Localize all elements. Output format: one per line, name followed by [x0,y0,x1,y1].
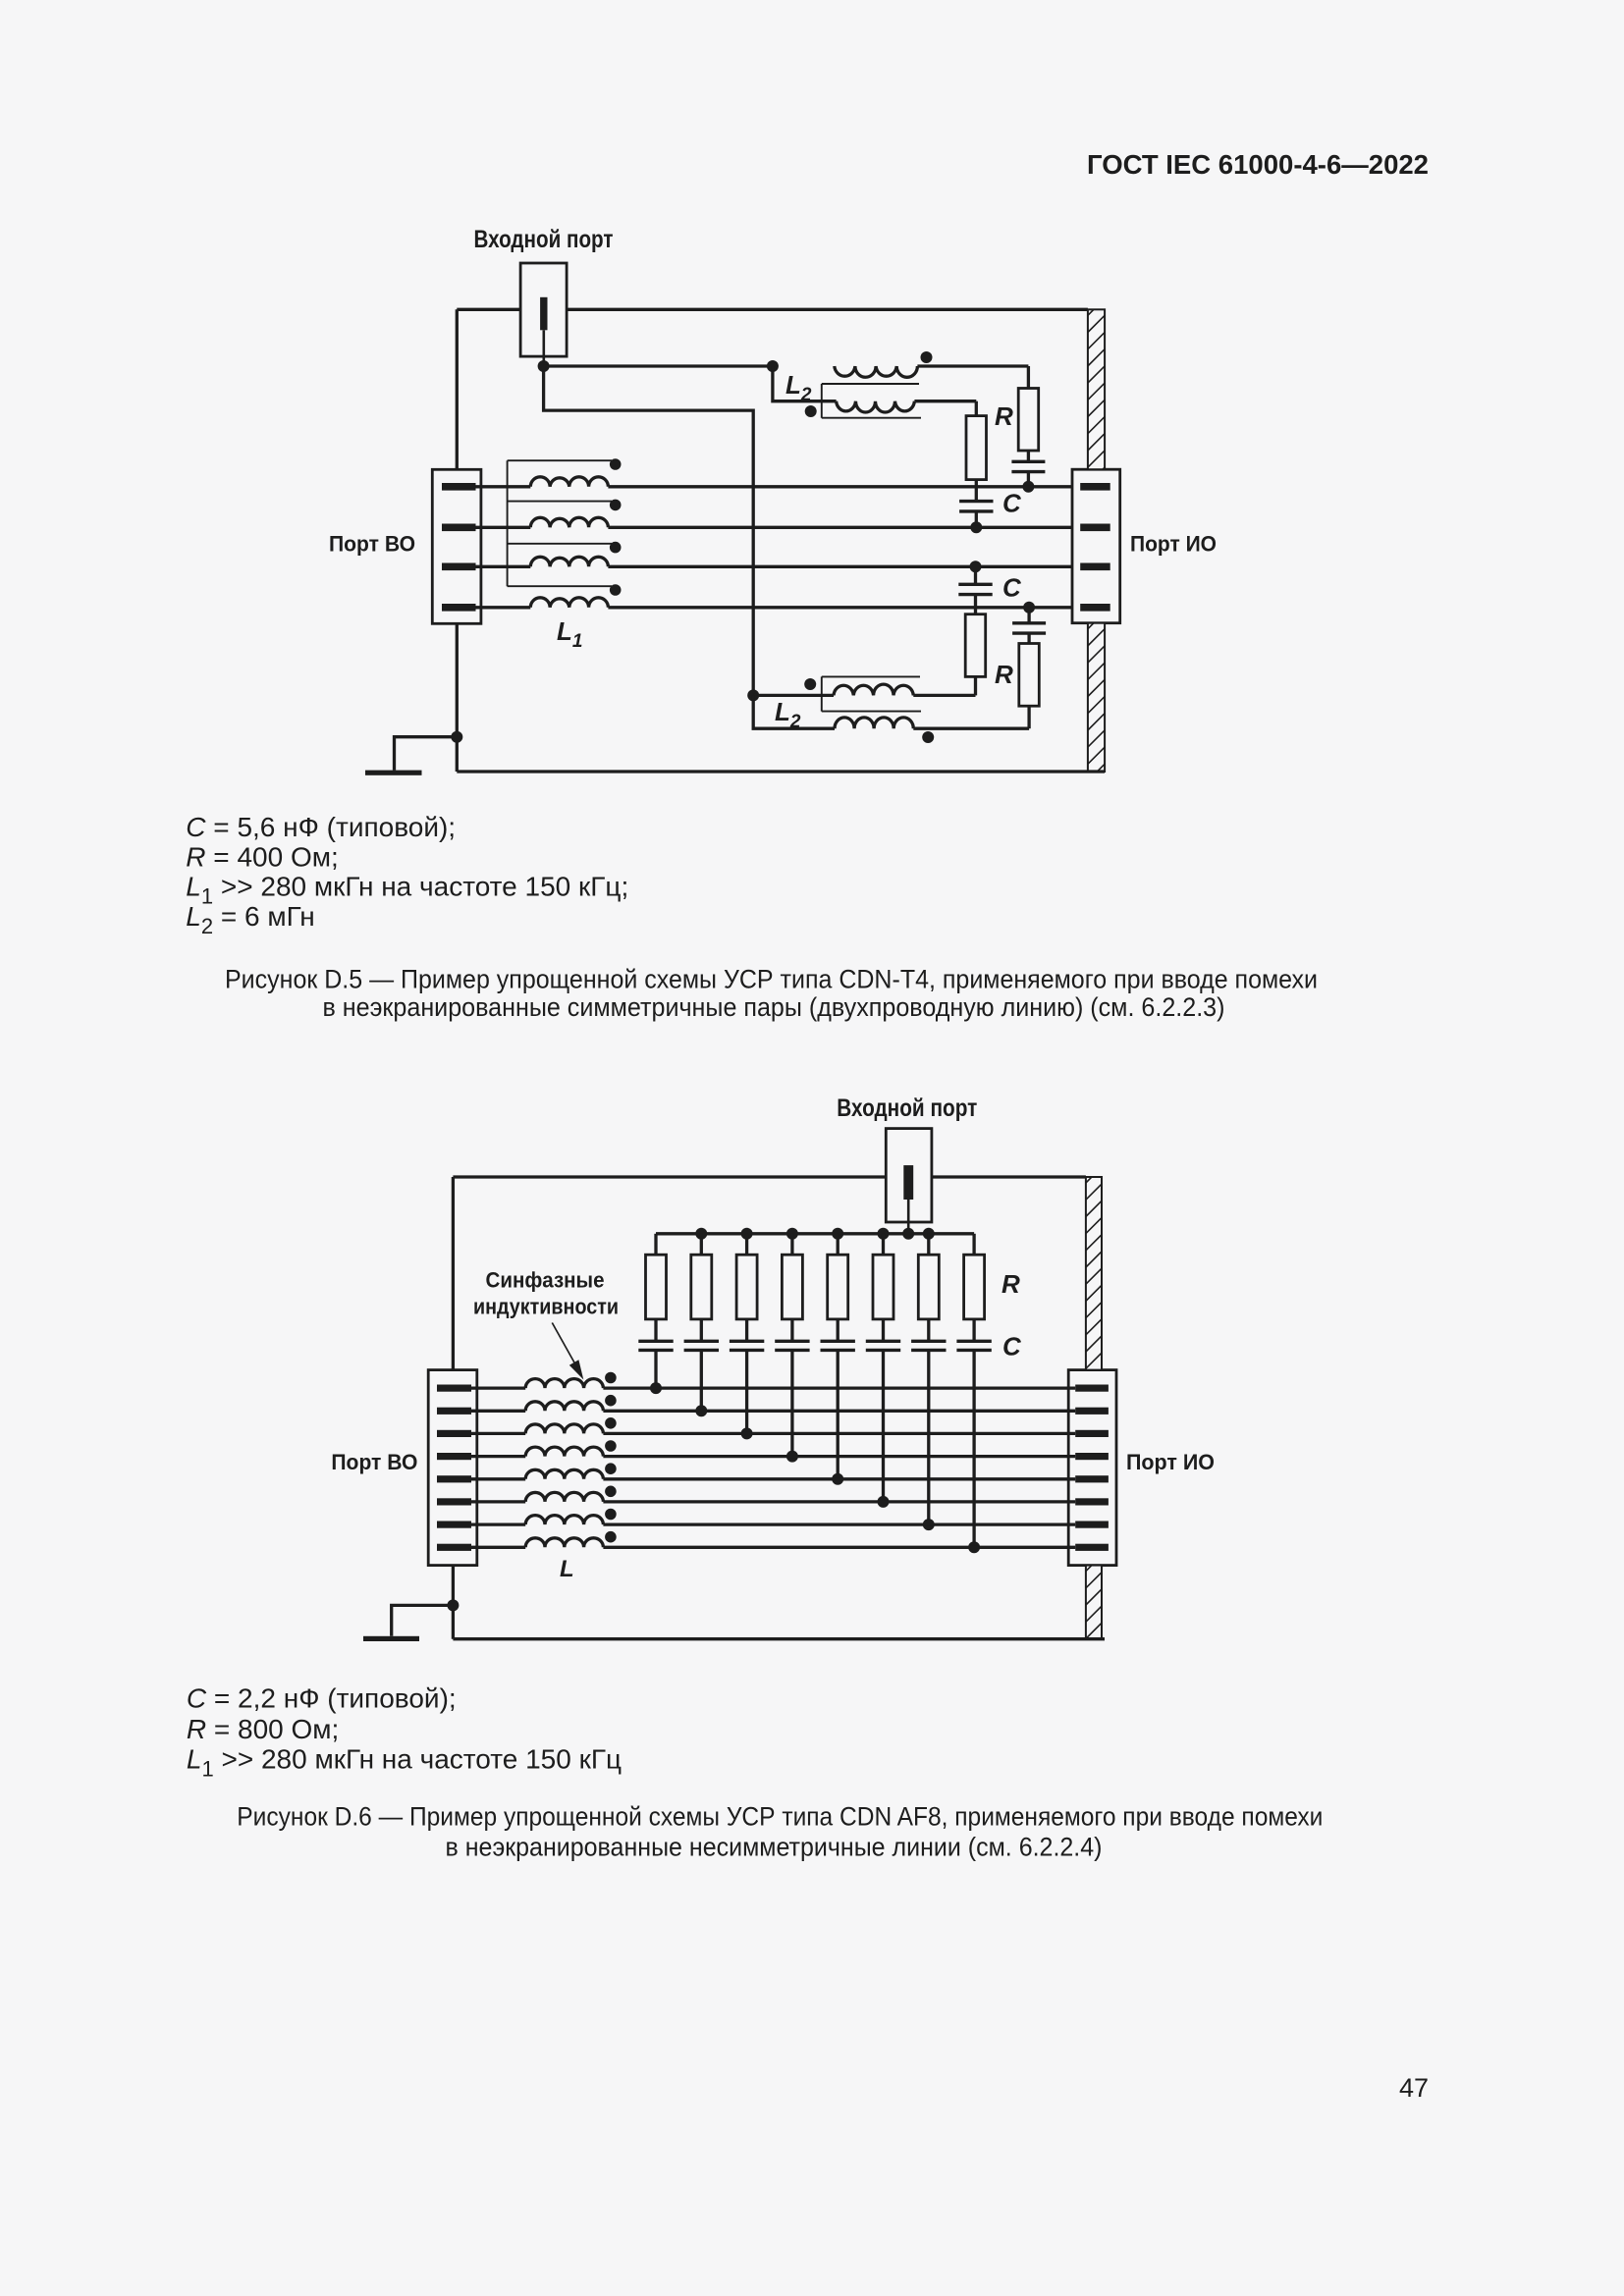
wire: conductor 6, fig D.6 [603,1500,1075,1503]
inductor L2 upper transformer, winding 2, fig D.5 [822,401,977,412]
svg-text:Входной порт: Входной порт [474,226,614,253]
polarity dot: choke 4, fig D.6 [605,1440,617,1452]
wire: to earth symbol, fig D.5 [395,737,458,771]
capacitor C7, fig D.6 [911,1341,946,1350]
wire: capacitor 3 down to conductor 3, fig D.6 [745,1350,748,1433]
wire: conductor 4, fig D.6 [603,1455,1075,1458]
pin bar 2 of Порт ИО, fig D.5 [1080,524,1110,532]
pin bar 1 of Порт ИО, fig D.6 [1075,1385,1109,1392]
svg-text:R: R [995,401,1013,431]
capacitor C2, fig D.6 [684,1341,719,1350]
wire: resistor 5 to capacitor, fig D.6 [837,1319,839,1340]
resistor R8, fig D.6 [964,1255,985,1319]
polarity dot: choke 6, fig D.6 [605,1486,617,1498]
inductor L winding 2, fig D.6 [471,1402,603,1412]
earth ground symbol, fig D.6 [363,1636,419,1641]
resistor R1, fig D.6 [646,1255,667,1319]
svg-text:R: R [995,660,1013,689]
junction: bus node 3, fig D.6 [741,1228,753,1240]
wire: conductor 1, fig D.6 [603,1386,1075,1389]
wire: to earth symbol, fig D.6 [392,1605,454,1635]
wire: resistor 8 to capacitor, fig D.6 [972,1319,975,1340]
capacitor C4, fig D.6 [775,1341,809,1350]
wire: left rail lower, fig D.5 [456,623,459,772]
junction: bus node 7, fig D.6 [923,1228,935,1240]
svg-text:C = 2,2 нФ (типовой);: C = 2,2 нФ (типовой); [187,1682,457,1713]
resistor R4, fig D.6 [782,1255,802,1319]
wire: bus to resistor 1, fig D.6 [654,1234,657,1255]
wire: conductor 3, fig D.6 [603,1432,1075,1435]
junction: branch 8 on conductor 8, fig D.6 [968,1541,980,1553]
junction: ground tap, fig D.5 [451,731,462,743]
core lines: L2 lower transformer, fig D.5 [822,676,921,711]
svg-text:L: L [560,1556,574,1582]
capacitor (upper right branch), fig D.5 [1011,461,1045,471]
wire: resistor to capacitor, fig D.5 [1027,633,1030,643]
wire: node to L2 upper lower winding, fig D.5 [773,366,822,401]
capacitor C (upper), fig D.5 [959,502,993,511]
junction: on conductor 2, fig D.5 [970,521,982,533]
polarity dot: L2 lower winding 1, fig D.5 [804,678,816,690]
resistor R (upper right), fig D.5 [1018,389,1039,452]
pin bar 3 of Порт ИО, fig D.5 [1080,563,1110,571]
junction: on conductor 1, fig D.5 [1022,481,1034,493]
wire: bus to resistor 2, fig D.6 [700,1234,703,1255]
svg-text:Порт ВО: Порт ВО [329,532,415,557]
polarity dot: choke 3, fig D.6 [605,1417,617,1429]
wire: conductor 7, fig D.6 [603,1522,1075,1525]
pin bar 6 of Порт ИО, fig D.6 [1075,1498,1109,1505]
inductor L winding 8, fig D.6 [471,1538,603,1548]
wire: left rail upper, fig D.5 [456,309,459,469]
pin bar 1 of Порт ИО, fig D.5 [1080,483,1110,491]
junction: bus node 5, fig D.6 [832,1228,843,1240]
svg-text:Рисунок D.5 — Пример упрощенно: Рисунок D.5 — Пример упрощенной схемы УС… [225,965,1318,994]
polarity dot: L1 choke 2, fig D.5 [610,500,622,511]
svg-text:ГОСТ IEC 61000-4-6—2022: ГОСТ IEC 61000-4-6—2022 [1087,149,1429,180]
wire: bus to resistor 7, fig D.6 [927,1234,930,1255]
inductor L1 winding 2, fig D.5 [476,517,609,527]
junction: L2 lower input node, fig D.5 [747,689,759,701]
core line of L1 choke 3, fig D.5 [508,543,612,545]
inductor L1 winding 1, fig D.5 [476,477,609,487]
capacitor C1, fig D.6 [638,1341,673,1350]
wire: port node to L2 upper, fig D.5 [544,364,773,367]
pin bar 3 of Порт ВО, fig D.5 [442,563,476,571]
wire: capacitor 1 down to conductor 1, fig D.6 [654,1350,657,1388]
junction: bus node 2, fig D.6 [695,1228,707,1240]
svg-text:R = 800 Ом;: R = 800 Ом; [187,1714,339,1744]
polarity dot: choke 2, fig D.6 [605,1395,617,1407]
wire: conductor 2, fig D.6 [603,1410,1075,1413]
wire: capacitor 2 down to conductor 2, fig D.6 [700,1350,703,1411]
pin bar 3 of Порт ИО, fig D.6 [1075,1430,1109,1437]
svg-text:в неэкранированные симметричны: в неэкранированные симметричные пары (дв… [323,992,1225,1022]
inductor L1 winding 4, fig D.5 [476,598,609,608]
polarity dot: choke 5, fig D.6 [605,1463,617,1474]
wire: capacitor to conductor 1, fig D.5 [1027,472,1030,487]
pin bar 4 of Порт ВО, fig D.6 [437,1453,471,1460]
resistor R5, fig D.6 [828,1255,848,1319]
wire: resistor 6 to capacitor, fig D.6 [882,1319,885,1340]
wire: L2 lower w2 to resistor R, fig D.5 [1027,706,1030,728]
capacitor C8, fig D.6 [956,1341,991,1350]
polarity dot: choke 7, fig D.6 [605,1509,617,1521]
wire: capacitor 8 down to conductor 8, fig D.6 [972,1350,975,1547]
wire: resistor bus, fig D.6 [656,1232,974,1235]
junction: bus node 4, fig D.6 [786,1228,798,1240]
junction: bus node 6, fig D.6 [878,1228,890,1240]
resistor R (upper left), fig D.5 [966,416,987,480]
inductor L winding 7, fig D.6 [471,1516,603,1525]
inductor L1 winding 3, fig D.5 [476,557,609,566]
junction: ground tap, fig D.6 [447,1599,459,1611]
wire: capacitor 6 down to conductor 6, fig D.6 [882,1350,885,1502]
wire: left rail upper, fig D.6 [452,1177,455,1370]
wire: resistor 7 to capacitor, fig D.6 [927,1319,930,1340]
junction: port feed on bus, fig D.6 [902,1228,914,1240]
wire: resistor 2 to capacitor, fig D.6 [700,1319,703,1340]
wire: bus to resistor 8, fig D.6 [972,1234,975,1255]
wire: bus to resistor 4, fig D.6 [790,1234,793,1255]
svg-text:Входной порт: Входной порт [837,1095,977,1122]
core lines: L2 upper transformer, fig D.5 [822,384,921,418]
pin bar 2 of Порт ИО, fig D.6 [1075,1408,1109,1415]
svg-text:Порт ИО: Порт ИО [1126,1450,1215,1474]
wire: resistor crossing conductor 1 to capacitor, fig D.5 [975,480,978,502]
wire: bus to resistor 6, fig D.6 [882,1234,885,1255]
svg-text:47: 47 [1399,2073,1429,2103]
wire: conductor 3, fig D.5 [608,565,1080,568]
wire: bus to resistor 5, fig D.6 [837,1234,839,1255]
wire: input port pin stem, fig D.5 [542,330,545,366]
svg-text:C: C [1002,489,1022,518]
svg-text:C = 5,6 нФ (типовой);: C = 5,6 нФ (типовой); [186,812,456,842]
wire: resistor crossing conductor 4 to capacitor, fig D.5 [974,595,977,614]
junction: branch 2 on conductor 2, fig D.6 [695,1405,707,1416]
ground reference wall (lower), fig D.6 [1086,1552,1106,1656]
polarity dot: L1 choke 4, fig D.5 [610,584,622,596]
wire: top rail right segment, fig D.6 [932,1175,1086,1178]
Порт ИО box, fig D.5 [1072,469,1120,623]
polarity dot: L2 lower winding 2, fig D.5 [922,731,934,743]
pin bar 4 of Порт ИО, fig D.6 [1075,1453,1109,1460]
polarity dot: L1 choke 3, fig D.5 [610,542,622,554]
junction: branch 6 on conductor 6, fig D.6 [878,1496,890,1508]
inductor L winding 4, fig D.6 [471,1447,603,1457]
svg-text:Рисунок D.6 — Пример упрощенно: Рисунок D.6 — Пример упрощенной схемы УС… [237,1802,1323,1832]
core line of L1 choke 4, fig D.5 [508,585,612,587]
input port box, fig D.5 [520,263,567,356]
resistor R3, fig D.6 [736,1255,757,1319]
capacitor C3, fig D.6 [730,1341,764,1350]
pin bar 4 of Порт ВО, fig D.5 [442,604,476,612]
wire: top rail right segment, fig D.5 [567,308,1088,311]
svg-text:C: C [1002,573,1022,603]
pin bar 3 of Порт ВО, fig D.6 [437,1430,471,1437]
polarity dot: L2 upper winding 2, fig D.5 [805,405,817,417]
junction: branch 7 on conductor 7, fig D.6 [923,1519,935,1530]
inductor L winding 1, fig D.6 [471,1379,603,1389]
inductor L winding 6, fig D.6 [471,1492,603,1502]
junction: on conductor 4, fig D.5 [1023,602,1035,614]
core bracket of L1 chokes, fig D.5 [507,460,509,586]
input port inner pin bar, fig D.5 [540,297,547,331]
junction: branch 3 on conductor 3, fig D.6 [741,1427,753,1439]
wire: resistor to capacitor, fig D.5 [1027,451,1030,460]
wire: L2 upper w1 to resistor R, fig D.5 [1027,366,1030,389]
capacitor C6, fig D.6 [866,1341,900,1350]
wire: conductor 1, fig D.5 [608,485,1080,488]
inductor L2 lower transformer, winding 1, fig D.5 [753,684,975,695]
Порт ИО box, fig D.6 [1068,1370,1116,1566]
pin bar 4 of Порт ИО, fig D.5 [1080,604,1110,612]
wire: capacitor to conductor 2, fig D.5 [975,511,978,527]
wire: left rail lower, fig D.6 [452,1566,455,1639]
junction: branch 4 on conductor 4, fig D.6 [786,1451,798,1463]
input port inner pin bar, fig D.6 [903,1165,913,1200]
pin bar 7 of Порт ВО, fig D.6 [437,1522,471,1528]
wire: capacitor to conductor 4, fig D.5 [1027,608,1030,623]
wire: capacitor 4 down to conductor 4, fig D.6 [790,1350,793,1456]
junction: on conductor 3, fig D.5 [970,561,982,572]
pin bar 8 of Порт ВО, fig D.6 [437,1544,471,1551]
wire: capacitor 7 down to conductor 7, fig D.6 [927,1350,930,1524]
Порт ВО box, fig D.6 [428,1370,477,1566]
junction: L2 upper input node, fig D.5 [767,360,779,372]
Порт ВО box, fig D.5 [432,469,481,623]
wire: resistor 3 to capacitor, fig D.6 [745,1319,748,1340]
wire: resistor 4 to capacitor, fig D.6 [790,1319,793,1340]
junction: branch 5 on conductor 5, fig D.6 [832,1473,843,1485]
core line of L1 choke 2, fig D.5 [508,501,612,503]
wire: L2 lower w1 to resistor, fig D.5 [974,676,977,695]
wire: node to L2 lower winding 2, fig D.5 [753,695,835,728]
resistor R6, fig D.6 [873,1255,893,1319]
ground reference wall (lower), fig D.5 [1088,609,1109,798]
ground reference wall (upper), fig D.5 [1088,294,1109,501]
junction: branch 1 on conductor 1, fig D.6 [650,1382,662,1394]
input port box, fig D.6 [886,1129,932,1222]
pin bar 1 of Порт ВО, fig D.6 [437,1385,471,1392]
wire: bus to resistor 3, fig D.6 [745,1234,748,1255]
svg-text:Порт ВО: Порт ВО [331,1450,417,1474]
inductor L winding 5, fig D.6 [471,1469,603,1479]
wire: top rail left segment, fig D.5 [457,308,520,311]
svg-text:Порт ИО: Порт ИО [1130,532,1217,557]
polarity dot: L1 choke 1, fig D.5 [610,458,622,470]
pin bar 1 of Порт ВО, fig D.5 [442,483,476,491]
wire: top rail left segment, fig D.6 [453,1175,886,1178]
polarity dot: choke 1, fig D.6 [605,1372,617,1384]
wire: bottom rail, fig D.6 [453,1637,1105,1640]
wire: capacitor 5 down to conductor 5, fig D.6 [837,1350,839,1478]
inductor L winding 3, fig D.6 [471,1424,603,1434]
wire: conductor 5, fig D.6 [603,1477,1075,1480]
leader arrow to chokes, fig D.6 [552,1323,574,1364]
svg-text:индуктивности: индуктивности [473,1295,619,1319]
pin bar 2 of Порт ВО, fig D.5 [442,524,476,532]
wire: bottom rail, fig D.5 [457,770,1105,773]
resistor R (lower right), fig D.5 [1019,644,1040,707]
svg-text:Синфазные: Синфазные [486,1268,605,1293]
ground reference wall (upper), fig D.6 [1086,1163,1106,1403]
inductor L2 lower transformer, winding 2, fig D.5 [835,718,1029,728]
wire: conductor 8, fig D.6 [603,1546,1075,1549]
pin bar 8 of Порт ИО, fig D.6 [1075,1544,1109,1551]
polarity dot: choke 8, fig D.6 [605,1531,617,1543]
polarity dot: L2 upper winding 1, fig D.5 [921,351,933,363]
core line of L1 choke 1, fig D.5 [508,459,612,461]
earth ground symbol, fig D.5 [365,771,422,775]
wire: L2 upper w2 to resistor R, fig D.5 [975,401,978,416]
capacitor (lower right branch), fig D.5 [1012,623,1046,633]
inductor L2 upper transformer, winding 1, fig D.5 [835,366,1029,377]
resistor R (lower left), fig D.5 [965,614,986,677]
pin bar 5 of Порт ВО, fig D.6 [437,1475,471,1482]
wire: port node down to L2 lower transformer, fig D.5 [544,366,754,695]
wire: resistor 1 to capacitor, fig D.6 [654,1319,657,1340]
capacitor C5, fig D.6 [821,1341,855,1350]
capacitor C (lower), fig D.5 [958,584,992,594]
resistor R7, fig D.6 [918,1255,939,1319]
pin bar 7 of Порт ИО, fig D.6 [1075,1522,1109,1528]
pin bar 5 of Порт ИО, fig D.6 [1075,1475,1109,1482]
wire: conductor 2, fig D.5 [608,526,1080,529]
svg-text:R = 400 Ом;: R = 400 Ом; [186,841,338,872]
resistor R2, fig D.6 [691,1255,712,1319]
svg-text:в неэкранированные несимметрич: в неэкранированные несимметричные линии … [446,1832,1103,1861]
pin bar 2 of Порт ВО, fig D.6 [437,1408,471,1415]
svg-text:C: C [1002,1332,1022,1362]
junction: node under input port, fig D.5 [538,360,550,372]
svg-text:R: R [1001,1269,1020,1299]
wire: conductor 4, fig D.5 [608,606,1080,609]
wire: input port pin stem to bus, fig D.6 [907,1200,910,1234]
wire: capacitor to conductor 3, fig D.5 [974,566,977,584]
pin bar 6 of Порт ВО, fig D.6 [437,1498,471,1505]
